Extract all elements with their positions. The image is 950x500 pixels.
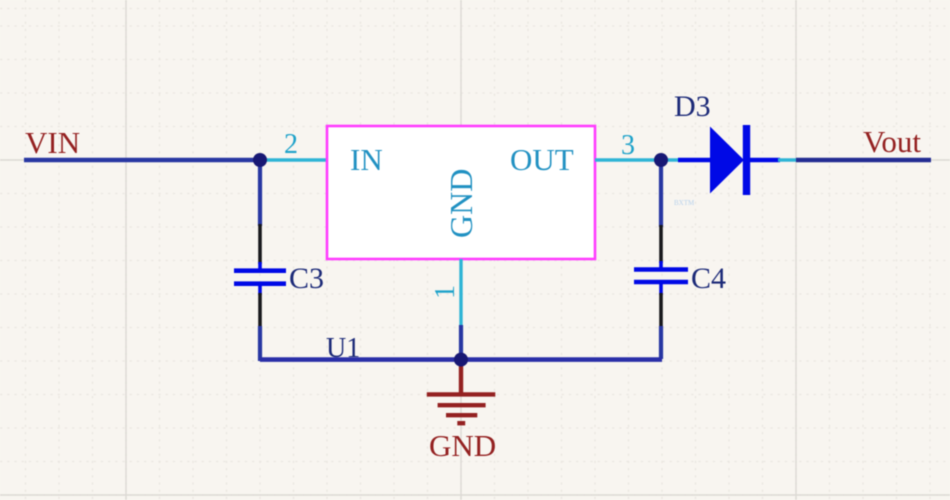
pin 1 wire <box>459 259 462 327</box>
svg-text:BXTM: BXTM <box>674 199 695 207</box>
pin 3 wire <box>595 158 661 161</box>
node B junction <box>654 153 668 167</box>
svg-text:C4: C4 <box>691 262 726 295</box>
pin 2 wire <box>260 158 328 161</box>
svg-text:1: 1 <box>430 285 461 299</box>
wire C4 to bottom rail <box>659 326 663 359</box>
svg-text:GND: GND <box>443 169 479 238</box>
diode D3 body <box>710 125 750 195</box>
svg-text:GND: GND <box>429 428 496 463</box>
svg-text:IN: IN <box>350 142 383 177</box>
node A junction <box>253 153 267 167</box>
wire to Vout <box>796 158 931 162</box>
wire node A down to C3 <box>258 160 262 226</box>
bottom ground rail wire <box>260 357 662 362</box>
svg-text:2: 2 <box>284 129 298 160</box>
svg-text:Vout: Vout <box>863 124 921 159</box>
wire C3 to bottom rail <box>258 326 262 361</box>
svg-text:3: 3 <box>621 130 635 161</box>
wire pin1 to node C <box>459 325 463 360</box>
svg-text:D3: D3 <box>674 90 711 123</box>
node C junction <box>454 353 468 367</box>
svg-text:OUT: OUT <box>510 142 574 177</box>
diode D3 anode lead <box>678 158 711 163</box>
wire diode to Vout pin end <box>778 158 797 161</box>
capacitor C3 <box>234 224 286 328</box>
regulator U1 box <box>327 126 595 259</box>
power port GND symbol <box>427 363 496 423</box>
wire VIN to node A <box>24 158 262 162</box>
wire node B down to C4 <box>659 160 663 227</box>
wire node B to diode <box>661 158 680 161</box>
diode D3 cathode lead <box>750 158 780 163</box>
capacitor C4 <box>634 225 688 328</box>
svg-text:C3: C3 <box>289 262 324 295</box>
svg-text:VIN: VIN <box>25 125 80 160</box>
